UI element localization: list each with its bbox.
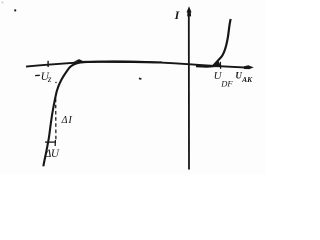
svg-text:I: I bbox=[67, 115, 72, 126]
faint corner speck bbox=[2, 2, 4, 4]
svg-text:z: z bbox=[47, 74, 52, 84]
bump at curve/axis merge bbox=[74, 59, 85, 62]
forward curve bbox=[196, 19, 231, 67]
tick U_DF bbox=[219, 62, 221, 69]
axis I (vertical) bbox=[188, 12, 190, 170]
svg-text:Δ: Δ bbox=[61, 115, 68, 126]
delta-U bracket vertical bbox=[54, 140, 56, 146]
label -Uz minus bbox=[35, 74, 40, 76]
tick -Uz bbox=[47, 61, 49, 67]
axis U arrowhead bbox=[244, 65, 254, 69]
knee wedge fill bbox=[212, 61, 221, 67]
svg-text:DF: DF bbox=[220, 79, 233, 89]
svg-text:AK: AK bbox=[241, 75, 253, 84]
axis U (horizontal) bbox=[26, 61, 248, 67]
breakdown curve (reverse) bbox=[43, 62, 162, 167]
delta-U bracket horizontal bbox=[45, 141, 56, 143]
stray speck mid bbox=[139, 78, 142, 80]
stray dot top-left bbox=[14, 9, 16, 11]
axis/curve overlap thickening bbox=[88, 61, 160, 63]
svg-text:I: I bbox=[174, 8, 181, 22]
dashed line delta-I bbox=[55, 99, 57, 141]
axis I arrowhead bbox=[187, 6, 192, 16]
svg-text:U: U bbox=[51, 148, 60, 160]
small dot after z bbox=[55, 82, 57, 84]
